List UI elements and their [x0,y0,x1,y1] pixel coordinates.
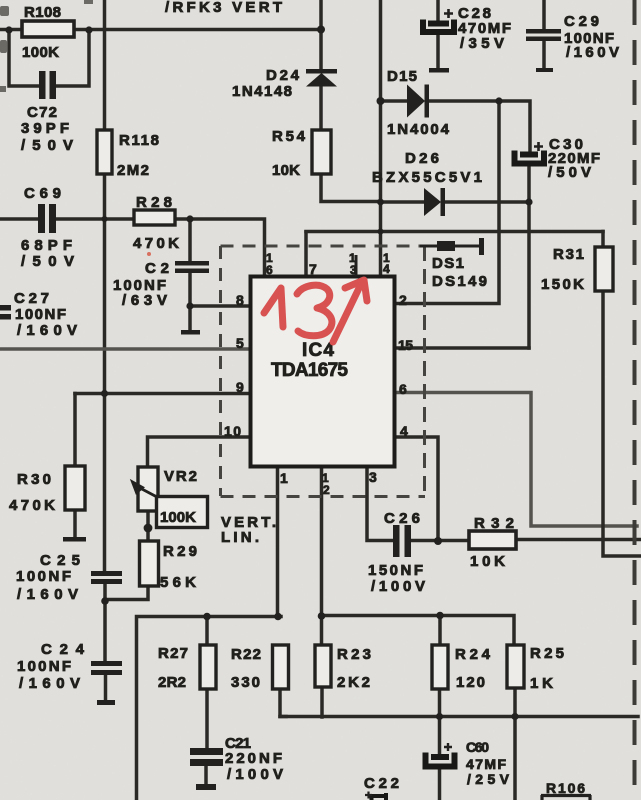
wire pin10 of IC4 [148,437,253,467]
wire pin7 riser [304,232,308,276]
wire R31 top lead [601,232,605,248]
svg-text:/160V: /160V [19,675,80,692]
node bus3 R24/C60 [436,713,443,720]
svg-text:330: 330 [231,674,260,691]
wire C21 ground lead [204,766,208,785]
resistor R32 [469,531,516,549]
capacitor C69 [38,204,56,233]
wire R24 top lead [438,616,442,646]
svg-text:100K: 100K [22,44,59,61]
svg-text:DS1: DS1 [432,255,464,272]
node bus2 R24 [436,612,444,620]
wire R29 bottom L [105,586,148,600]
wire C69 input from left [0,217,38,221]
wire C69 to R28 [56,217,133,221]
pin 13 stub [355,255,358,276]
svg-text:R32: R32 [474,515,514,532]
svg-text:R23: R23 [337,646,371,663]
wire R24 bottom to C60 [438,689,442,753]
wire C30 node down to pin15 rail [527,166,531,348]
node pin2 branch [495,97,502,104]
wire main vertical bus x104 upper [103,0,107,130]
svg-text:R27: R27 [158,645,188,662]
wire pin1 of IC4 drop [276,468,280,616]
capacitor C26 [393,525,411,557]
svg-text:10K: 10K [272,162,300,179]
electrolytic C30 [515,142,545,164]
svg-text:C22: C22 [364,775,399,792]
wire pin6 of IC4 [396,393,637,527]
resistor R31 [595,247,613,291]
svg-text:R106: R106 [546,780,585,796]
IC op-amp U IC4 TDA1675 box [251,277,395,467]
wire C60 bottom lead [438,770,442,800]
svg-text:D24: D24 [266,67,300,84]
node bus2 pin12/R23 [318,612,326,620]
svg-text:/100V: /100V [371,578,425,595]
wire /RFK3 VERT top rail [0,28,321,32]
wire R28 to pin16 corner [176,219,265,276]
svg-text:IC4: IC4 [302,340,334,361]
wire pin15 of IC4 [396,346,529,350]
wire bus1 R27/R22 top [137,617,282,800]
VR2 wiper arrow [133,482,158,497]
wire D26 anode [381,200,425,204]
wire R27 bottom to C21 [205,689,209,748]
svg-text:1: 1 [280,470,288,486]
svg-text:2: 2 [323,483,330,497]
node C26/R32/pin4 [434,537,442,545]
dashed module boundary around IC4 [221,246,426,497]
node C25/R29 [101,597,109,605]
capacitor C27 (edge) [0,305,11,320]
svg-text:C27: C27 [14,290,49,307]
wire main vertical B x380 [379,0,383,276]
wire pin5 of IC4 long rail [0,347,252,351]
resistor R23 [315,645,331,687]
svg-text:D15: D15 [387,68,417,85]
svg-text:C26: C26 [384,510,420,527]
wire pin3 of IC4 to C26 [367,468,393,541]
wire D24 branch vertical [319,0,323,69]
wire bus3 bottom rail [280,715,638,719]
resistor R108 [22,21,74,37]
wire D24 to R54 [319,86,323,130]
svg-text:5: 5 [236,335,244,351]
svg-text:C60: C60 [466,739,489,755]
svg-text:3: 3 [369,469,377,485]
ground under C21 [196,784,216,790]
resistor R118 [97,130,112,174]
svg-text:100NF: 100NF [16,568,71,585]
resistor R106 partial box at bottom edge [541,795,591,800]
resistor R28 [134,210,175,225]
svg-text:470K: 470K [9,497,55,514]
svg-text:R118: R118 [119,132,159,149]
red arrow shaft [333,284,361,342]
svg-text:C24: C24 [41,641,85,658]
resistor R27 [200,645,216,689]
wire R30 top lead [73,394,77,467]
scan smudges [0,0,93,92]
wire pin9 of IC4 rail [75,392,252,396]
node R28/C2 [186,215,193,222]
svg-text:1K: 1K [530,675,553,692]
wire R23 bottom lead [320,687,324,717]
wire D15 anode [381,99,408,103]
dashed page border right [633,0,637,800]
svg-text:1N4148: 1N4148 [232,83,292,100]
wire C25 to C24 segment [103,584,107,661]
svg-text:C29: C29 [564,13,599,30]
svg-text:DS149: DS149 [432,273,487,290]
potentiometer VR2 [138,467,158,511]
svg-text:/160V: /160V [17,322,77,339]
svg-text:100K: 100K [160,509,196,526]
wire bus2 R23/R24/R25 top [322,616,515,646]
ground under C28 [429,68,449,73]
svg-text:R108: R108 [24,4,61,21]
node R108 right [85,26,92,33]
svg-text:100NF: 100NF [15,306,66,323]
svg-text:R54: R54 [272,128,306,145]
wire C2 ground drop [188,306,192,331]
ground under C2 [181,330,200,335]
svg-text:R24: R24 [455,646,491,663]
svg-text:8: 8 [236,292,244,308]
ground under R30 [63,537,86,542]
wire C29 ground lead [542,40,546,68]
wire R54 bottom L to main net [321,174,381,202]
electrolytic C60 [426,743,455,767]
node C30 bottom [525,198,532,205]
svg-text:6: 6 [266,263,273,277]
node R108 left [5,26,12,33]
red handwritten digit 3 [297,285,332,336]
wire R31 bottom to right edge [603,291,641,556]
diode D24 [306,69,337,87]
wire pin2 net from D15 node [396,101,499,304]
diode D15 [407,85,429,118]
svg-text:39PF: 39PF [21,120,69,137]
svg-text:R25: R25 [530,645,564,662]
svg-text:4: 4 [383,262,390,276]
wire R27 top lead [205,617,209,646]
svg-text:R29: R29 [163,543,197,560]
svg-text:C72: C72 [27,104,57,121]
wire C29 top lead [542,0,546,29]
node D24 top rail [317,26,325,34]
node D15 anode [377,97,385,105]
wire C28 ground lead [436,34,440,68]
svg-text:BZX55C5V1: BZX55C5V1 [372,169,482,186]
ground under C29 [536,68,553,72]
svg-text:56K: 56K [160,574,196,591]
capacitor C29 [526,29,561,41]
red arrow head [345,280,367,301]
svg-text:4: 4 [400,423,408,439]
node D26 anode [377,199,384,206]
wire pin12 of IC4 drop to R23 [320,468,324,645]
capacitor C72 [39,71,56,99]
svg-text:/100V: /100V [227,766,283,783]
node bus1 R27 [203,613,211,621]
capacitor C21 [190,748,223,766]
svg-text:R31: R31 [553,246,584,263]
svg-text:3: 3 [350,263,357,277]
svg-text:10: 10 [224,423,241,439]
svg-text:6: 6 [399,381,407,397]
svg-text:D26: D26 [405,150,439,167]
resistor R54 [312,130,331,174]
wire C26 to R32 [411,539,468,543]
wire pin7 to R31 rail [306,230,603,234]
wire R30 bottom lead [73,510,77,538]
diode DS1 [420,238,484,255]
wire main vertical bus x104 R118 to C25 [103,175,107,571]
wire R22 bottom to bus3 [280,689,286,717]
svg-text:10K: 10K [470,553,505,570]
svg-text:C25: C25 [40,552,80,569]
svg-text:47MF: 47MF [466,756,506,772]
svg-text:100NF: 100NF [17,658,71,675]
resistor R24 [432,645,448,689]
wire C2 bottom lead [188,273,192,306]
node VR2/R29 [144,524,153,533]
svg-text:/160V: /160V [566,44,619,61]
svg-text:R30: R30 [17,471,51,488]
svg-text:C69: C69 [24,185,61,202]
electrolytic C22 partial at bottom edge [365,792,386,800]
red handwritten digit 1 [264,288,283,327]
RED [264,280,367,342]
electrolytic C28 [423,9,454,32]
svg-text:VR2: VR2 [164,468,197,485]
wire pin4 of IC4 to C26/R32 node [396,437,438,541]
wire C28 top lead [436,0,440,21]
svg-text:470K: 470K [133,235,179,252]
svg-text:2K2: 2K2 [337,674,370,691]
capacitor C24 [91,661,122,675]
wire C72 parallel loop right [55,30,89,86]
wire R25 bottom lead [513,688,517,800]
svg-text:150NF: 150NF [368,562,423,579]
ground under C24 [97,700,115,705]
svg-text:R28: R28 [136,194,172,211]
VR2 value box 100K [157,497,208,528]
wire R32 output to right edge [516,538,641,542]
svg-text:120: 120 [456,674,485,691]
resistor R30 [65,466,85,510]
wire VR2 to R29 [146,511,150,541]
node bus1 pin1/R22 [274,613,282,621]
node bus3 R25 [511,713,518,720]
svg-text:TDA1675: TDA1675 [271,360,348,381]
svg-text:2R2: 2R2 [158,674,186,691]
node C2/pin8 [186,302,193,309]
wire C2 top lead [188,219,192,261]
node C69 bus [102,216,108,222]
svg-text:9: 9 [236,379,244,395]
capacitor C25 [91,571,122,584]
wire pin8 of IC4 [190,304,252,308]
svg-text:15: 15 [398,337,413,353]
svg-text:/160V: /160V [17,586,78,603]
red speck [147,252,151,256]
wire C72 parallel loop left [9,30,39,86]
svg-text:2M2: 2M2 [117,162,149,179]
capacitor C2 [175,261,209,273]
resistor R22 [273,645,289,689]
resistor R29 [140,541,159,586]
svg-text:150K: 150K [541,276,584,293]
wire D26 cathode to C30 node [444,200,529,204]
svg-text:2: 2 [399,292,407,308]
wire D15 cathode to C30 corner [428,101,530,152]
zener D26 [424,188,445,216]
svg-text:R22: R22 [231,646,261,663]
node pin9 bus [101,390,108,397]
wire C24 ground lead [104,675,108,700]
node pin7 rail crossing [378,229,384,235]
resistor R25 [507,645,524,688]
svg-text:7: 7 [309,261,317,277]
